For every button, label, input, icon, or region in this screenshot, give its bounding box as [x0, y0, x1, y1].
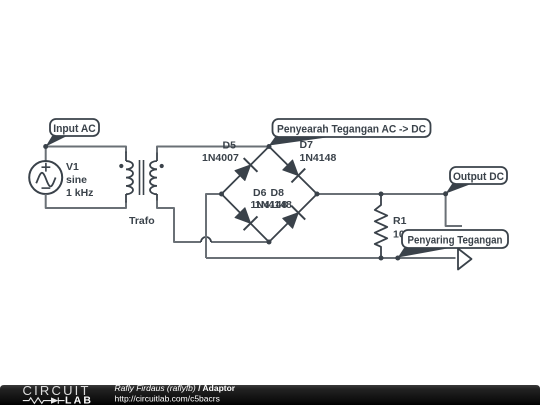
junction dot bridge top node — [267, 144, 272, 149]
diode D5 — [235, 158, 257, 180]
wire hop arc — [201, 237, 211, 242]
junction dot bottom rail pointer — [395, 256, 400, 261]
junction dot R1 top — [379, 192, 384, 197]
transformer core — [140, 160, 144, 195]
callout Penyearah Tegangan AC -> DC — [269, 119, 431, 146]
svg-text:http://circuitlab.com/c5bacrs: http://circuitlab.com/c5bacrs — [115, 394, 220, 404]
callout Output DC — [446, 167, 507, 194]
transformer secondary polarity dot — [160, 164, 164, 168]
diode D7 — [283, 160, 305, 182]
junction dot bridge bottom node — [267, 240, 272, 245]
wire output stub — [446, 194, 462, 226]
wire bridge right node to output — [317, 193, 446, 195]
transformer secondary bottom stub — [156, 194, 158, 202]
diode D6 — [235, 208, 257, 230]
wire top from source to transformer primary — [46, 147, 126, 153]
svg-text:R1: R1 — [393, 215, 407, 227]
bottom rail wire — [206, 257, 456, 259]
transformer secondary coil — [150, 161, 157, 194]
svg-text:1 kHz: 1 kHz — [66, 187, 93, 199]
junction dot bridge right node — [315, 192, 320, 197]
transformer primary bottom stub — [125, 194, 127, 203]
svg-text:Rafly Firdaus (raflyfb) / Adap: Rafly Firdaus (raflyfb) / Adaptor — [115, 383, 236, 393]
bridge diamond wires — [222, 147, 318, 243]
junction dot R1 bottom — [379, 256, 384, 261]
svg-text:D6: D6 — [253, 187, 267, 199]
junction dot bridge left node — [219, 192, 224, 197]
svg-text:Trafo: Trafo — [129, 215, 155, 227]
transformer secondary top stub — [156, 152, 158, 162]
wire secondary bottom with hop over vertical wire — [157, 201, 269, 243]
logo resistor-diode squiggle — [23, 397, 65, 403]
svg-text:Input AC: Input AC — [53, 123, 96, 135]
svg-text:Penyaring Tegangan: Penyaring Tegangan — [408, 235, 503, 247]
svg-text:1N4007: 1N4007 — [202, 152, 239, 164]
svg-text:Output DC: Output DC — [453, 171, 504, 183]
wire secondary top to bridge top node — [157, 147, 269, 153]
resistor R1 — [375, 194, 387, 258]
svg-text:Penyearah Tegangan AC -> DC: Penyearah Tegangan AC -> DC — [277, 124, 426, 136]
annotation arrow on bottom rail — [458, 249, 472, 270]
wire source top lead — [45, 147, 47, 162]
voltage source V1 — [29, 161, 62, 194]
wire bridge left node down to bottom rail — [206, 194, 222, 258]
svg-text:D8: D8 — [271, 187, 285, 199]
svg-text:D5: D5 — [223, 140, 237, 152]
wire bottom from source to transformer primary — [46, 194, 126, 208]
transformer primary top stub — [125, 152, 127, 162]
junction dot top-left node — [43, 144, 48, 149]
svg-text:1N4148: 1N4148 — [300, 152, 337, 164]
diode D8 — [283, 206, 305, 228]
callout Input AC — [46, 119, 99, 147]
svg-text:sine: sine — [66, 174, 87, 186]
footer bar — [0, 385, 540, 405]
junction dot output node — [443, 191, 448, 196]
transformer primary polarity dot — [119, 164, 123, 168]
svg-text:LAB: LAB — [65, 395, 93, 406]
svg-text:V1: V1 — [66, 161, 79, 173]
callout Penyaring Tegangan — [398, 230, 508, 258]
svg-text:1N4148: 1N4148 — [255, 199, 292, 211]
transformer primary coil — [126, 161, 133, 194]
